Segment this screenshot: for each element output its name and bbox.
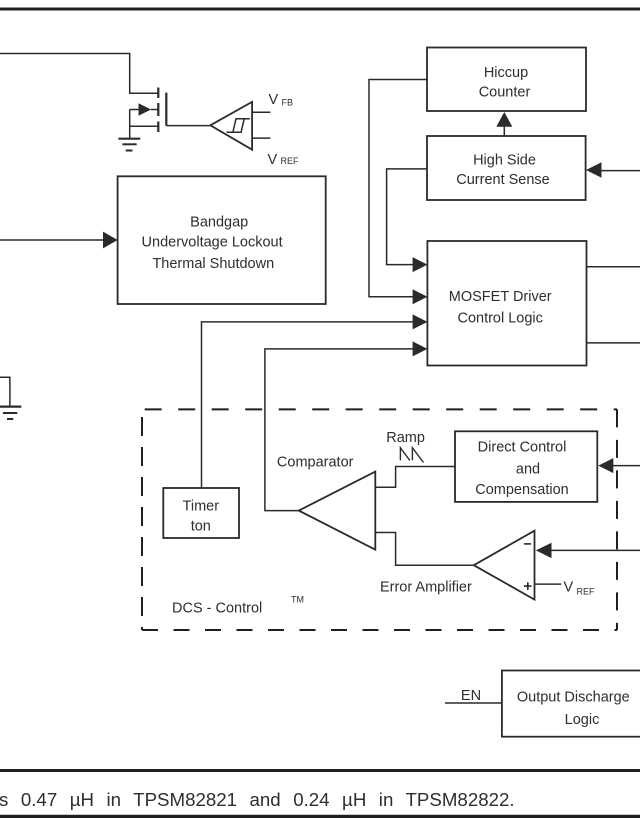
svg-text:Control Logic: Control Logic — [457, 311, 542, 327]
svg-text:Undervoltage Lockout: Undervoltage Lockout — [142, 235, 283, 251]
svg-text:Bandgap: Bandgap — [190, 215, 248, 231]
svg-text:V: V — [268, 152, 278, 168]
svg-text:Comparator: Comparator — [277, 454, 354, 470]
svg-text:V: V — [269, 92, 279, 108]
svg-text:EN: EN — [461, 688, 481, 704]
svg-text:REF: REF — [281, 156, 300, 166]
svg-text:TM: TM — [291, 595, 304, 605]
svg-text:Counter: Counter — [479, 84, 531, 100]
svg-text:and: and — [516, 461, 540, 477]
svg-text:ton: ton — [191, 519, 211, 535]
svg-text:High Side: High Side — [473, 152, 536, 168]
svg-text:Hiccup: Hiccup — [484, 65, 528, 81]
svg-text:Direct Control: Direct Control — [478, 440, 567, 456]
svg-text:Thermal Shutdown: Thermal Shutdown — [152, 256, 274, 272]
svg-text:Logic: Logic — [565, 712, 600, 728]
svg-text:s 0.47 µH in TPSM82821 and 0.2: s 0.47 µH in TPSM82821 and 0.24 µH in TP… — [0, 789, 515, 810]
svg-text:REF: REF — [577, 587, 596, 597]
svg-text:FB: FB — [282, 98, 294, 108]
svg-text:Timer: Timer — [183, 499, 220, 515]
svg-text:MOSFET Driver: MOSFET Driver — [449, 289, 552, 305]
svg-text:Error Amplifier: Error Amplifier — [380, 579, 472, 595]
svg-text:Ramp: Ramp — [386, 430, 425, 446]
svg-text:Current Sense: Current Sense — [456, 172, 550, 188]
svg-text:V: V — [564, 580, 574, 596]
svg-text:Compensation: Compensation — [475, 482, 569, 498]
svg-text:DCS - Control: DCS - Control — [172, 600, 262, 616]
svg-text:Output Discharge: Output Discharge — [517, 690, 630, 706]
